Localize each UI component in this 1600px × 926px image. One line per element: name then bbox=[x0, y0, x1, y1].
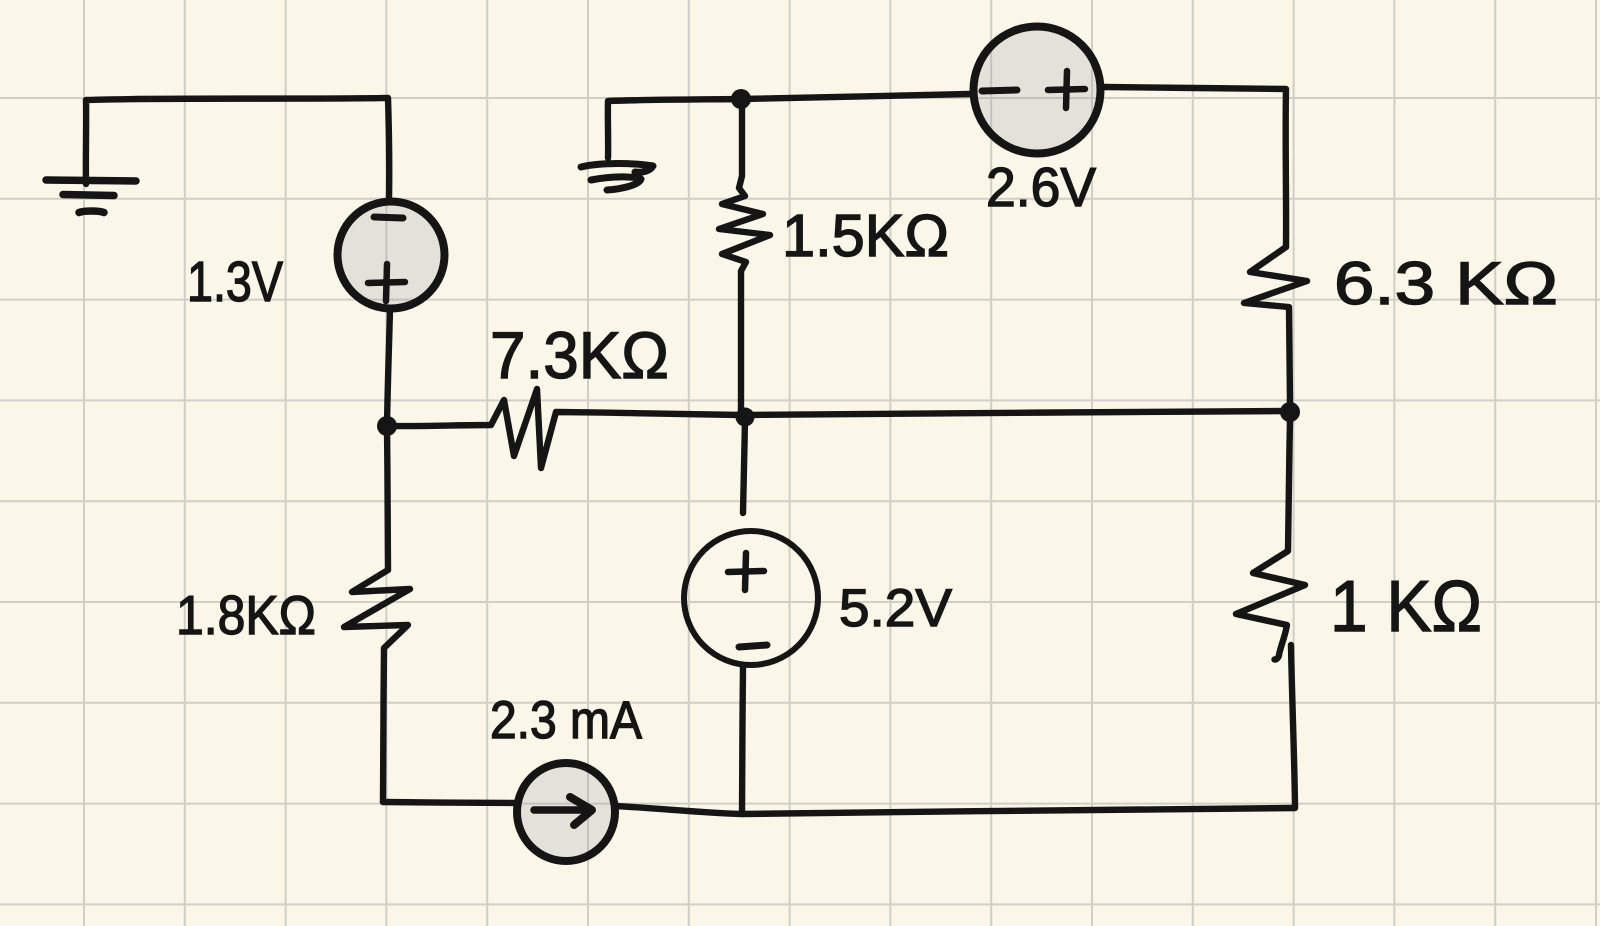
svg-text:2.6V: 2.6V bbox=[986, 156, 1096, 218]
svg-text:5.2V: 5.2V bbox=[839, 579, 953, 638]
svg-text:1.5KΩ: 1.5KΩ bbox=[782, 203, 949, 269]
svg-text:1 KΩ: 1 KΩ bbox=[1330, 567, 1482, 647]
svg-text:7.3KΩ: 7.3KΩ bbox=[490, 318, 669, 392]
svg-text:6.3 KΩ: 6.3 KΩ bbox=[1334, 250, 1558, 317]
svg-text:1.8KΩ: 1.8KΩ bbox=[176, 584, 316, 646]
svg-text:2.3 mA: 2.3 mA bbox=[490, 691, 643, 750]
svg-text:1.3V: 1.3V bbox=[187, 250, 283, 314]
